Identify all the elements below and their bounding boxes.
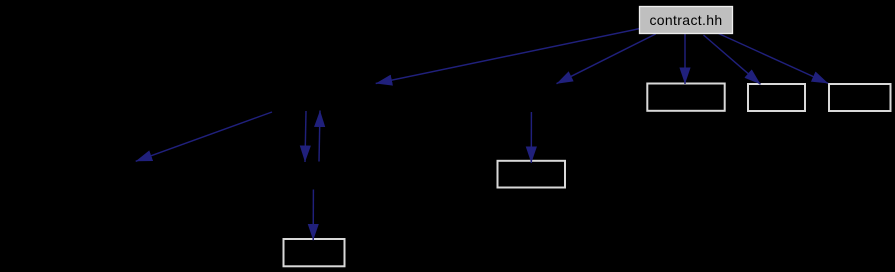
- svg-text:contract.hh: contract.hh: [649, 12, 722, 28]
- box3 (empty node): [829, 84, 891, 111]
- node contract.hh: [640, 7, 733, 34]
- edge contract.hh -> node A (invisible): [376, 29, 640, 84]
- edge node A -> node C (invisible): [136, 112, 272, 161]
- box D (empty node): [498, 161, 566, 188]
- edge contract.hh -> box1: [684, 34, 686, 84]
- edge contract.hh -> box2: [704, 35, 761, 84]
- edge node A -> node B (down): [305, 111, 306, 162]
- edge node B -> node A (up): [319, 111, 320, 162]
- bottom box (empty node): [284, 239, 345, 266]
- edge contract.hh -> node D (invisible): [557, 34, 656, 84]
- edge node D -> box D: [530, 112, 532, 163]
- edge node B -> bottom box: [312, 190, 314, 241]
- edge contract.hh -> box3: [719, 34, 829, 84]
- box2 (empty node): [748, 84, 805, 111]
- box1 (empty node): [647, 84, 724, 111]
